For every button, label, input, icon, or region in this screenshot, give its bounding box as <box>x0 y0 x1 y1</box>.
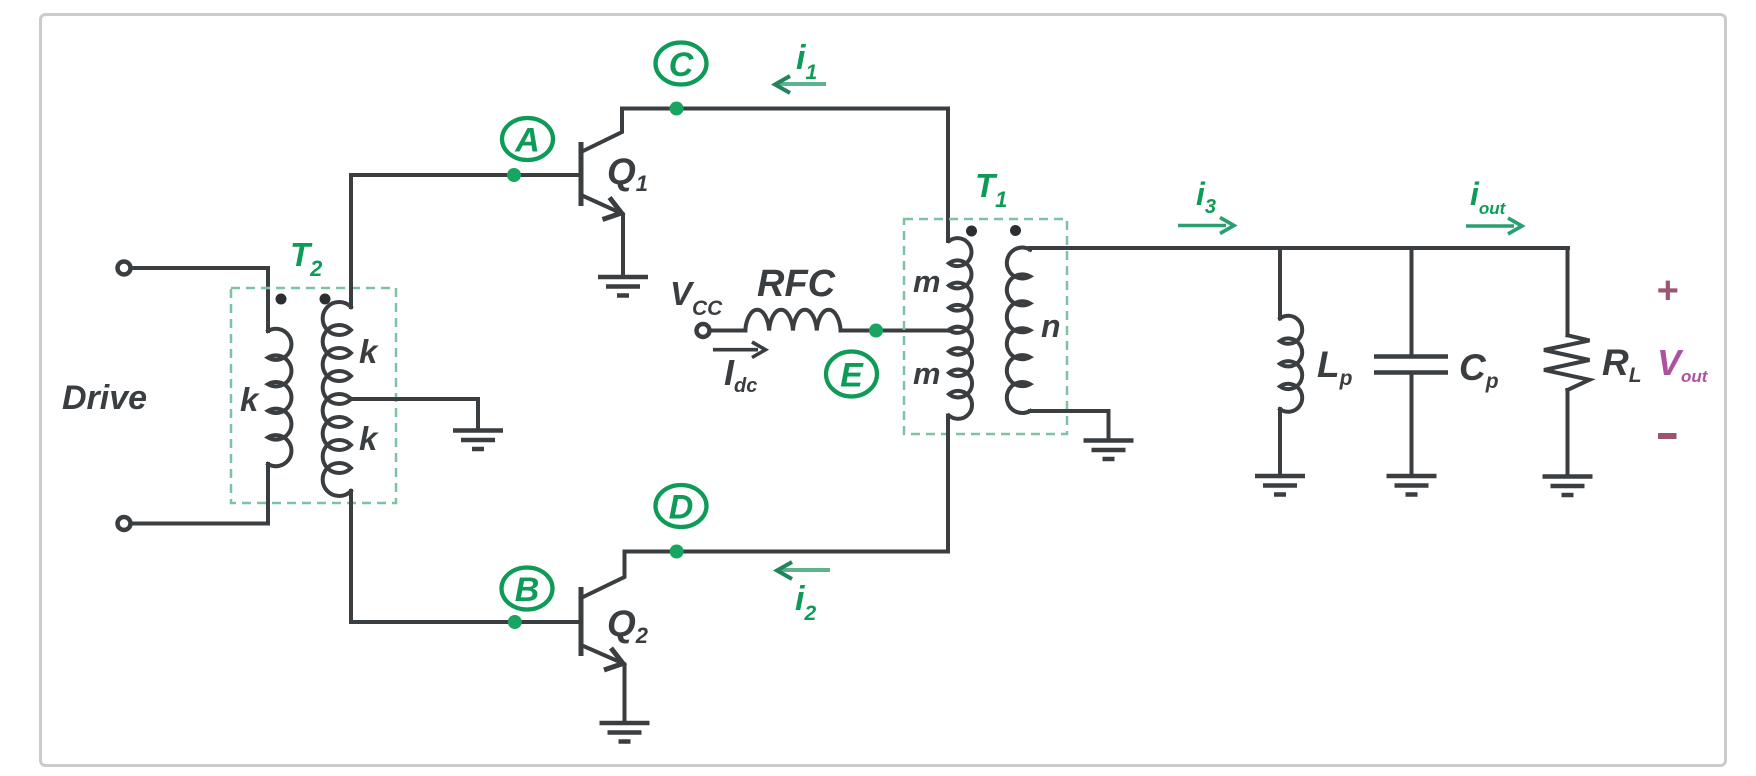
T2 polarity dot left <box>276 294 287 305</box>
svg-text:+: + <box>1656 270 1678 312</box>
current arrow iout <box>1466 218 1522 234</box>
svg-text:B: B <box>515 571 540 609</box>
wire Cp to ground <box>1410 375 1414 474</box>
transformer T1 dashed box <box>904 219 1067 434</box>
ground at Q2 emitter <box>600 723 650 742</box>
node E badge <box>826 352 877 397</box>
T2 secondary upper winding k <box>323 302 351 404</box>
transistor Q1 base bar <box>579 142 584 206</box>
svg-text:n: n <box>1041 308 1061 344</box>
ground at RL <box>1543 477 1593 496</box>
T1 polarity dot right <box>1010 225 1021 236</box>
svg-text:C: C <box>669 46 694 84</box>
wire node D collector rail <box>625 416 949 552</box>
node C badge <box>656 43 707 85</box>
svg-text:k: k <box>359 333 379 370</box>
resistor RL zigzag <box>1544 335 1590 390</box>
node A badge <box>502 118 553 160</box>
node B badge <box>502 568 553 610</box>
wire drive bottom to T2 primary <box>131 464 268 524</box>
svg-text:m: m <box>913 356 941 391</box>
wire T1 secondary bottom to ground <box>1030 411 1109 438</box>
wire T2 secondary bottom to node B <box>351 491 579 622</box>
ground at T1 secondary <box>1084 441 1134 460</box>
svg-text:k: k <box>359 420 379 457</box>
capacitor Cp branch wire top <box>1410 248 1414 355</box>
Q2 emitter arrowhead <box>604 648 623 670</box>
svg-text:Drive: Drive <box>62 379 147 417</box>
ground at Lp <box>1255 476 1305 495</box>
ground at Q1 emitter <box>598 277 648 296</box>
label minus sign <box>1658 433 1677 439</box>
wire Lp to ground <box>1278 409 1282 473</box>
T1 primary upper winding m <box>949 238 971 333</box>
node dot C <box>670 102 684 116</box>
inductor RFC <box>745 310 840 331</box>
T2 polarity dot right <box>320 294 331 305</box>
wire T2 secondary top to node A <box>351 175 579 307</box>
Vcc terminal <box>697 324 710 337</box>
input terminal bottom <box>118 517 131 530</box>
current arrow i1 <box>775 76 826 93</box>
transformer T2 dashed box <box>231 288 396 503</box>
Q1 collector lead <box>581 109 622 153</box>
current arrow i3 <box>1178 218 1234 234</box>
wire Vcc to RFC <box>710 329 746 333</box>
node dot D <box>670 545 684 559</box>
svg-text:k: k <box>240 381 260 418</box>
svg-text:D: D <box>669 489 694 527</box>
svg-text:E: E <box>840 357 864 395</box>
inductor Lp branch wire top <box>1278 248 1282 318</box>
ground at T2 center tap <box>453 431 503 450</box>
input terminal top <box>118 262 131 275</box>
wire T2 center tap to ground <box>351 399 478 428</box>
wire RFC to node E and T1 center tap <box>841 329 949 333</box>
wire node C collector rail <box>622 109 948 242</box>
current arrow i2 <box>777 562 830 579</box>
Q1 emitter lead <box>581 195 623 275</box>
Q1 emitter arrowhead <box>603 198 622 220</box>
T1 secondary winding n <box>1007 247 1030 413</box>
wire drive top to T2 primary <box>131 268 268 331</box>
current arrow Idc <box>713 342 766 358</box>
capacitor Cp plates <box>1374 354 1448 359</box>
node D badge <box>656 485 707 527</box>
T1 primary lower winding m <box>949 327 972 419</box>
node dot B <box>508 615 522 629</box>
inductor Lp <box>1280 316 1302 412</box>
svg-text:A: A <box>514 122 540 160</box>
transistor Q2 base bar <box>579 587 584 656</box>
resistor RL branch wire top <box>1566 248 1570 335</box>
ground at Cp <box>1387 476 1437 495</box>
node dot A <box>507 168 521 182</box>
T1 polarity dot left <box>966 226 977 237</box>
svg-text:RFC: RFC <box>757 263 836 305</box>
wire RL to ground <box>1566 390 1570 474</box>
Q2 emitter lead <box>581 645 625 721</box>
node dot E <box>869 324 883 338</box>
T2 primary winding k <box>268 329 291 466</box>
T2 secondary lower winding k <box>323 394 351 496</box>
svg-text:m: m <box>913 264 941 299</box>
wire output rail <box>1030 248 1568 250</box>
Q2 collector lead <box>581 552 625 599</box>
